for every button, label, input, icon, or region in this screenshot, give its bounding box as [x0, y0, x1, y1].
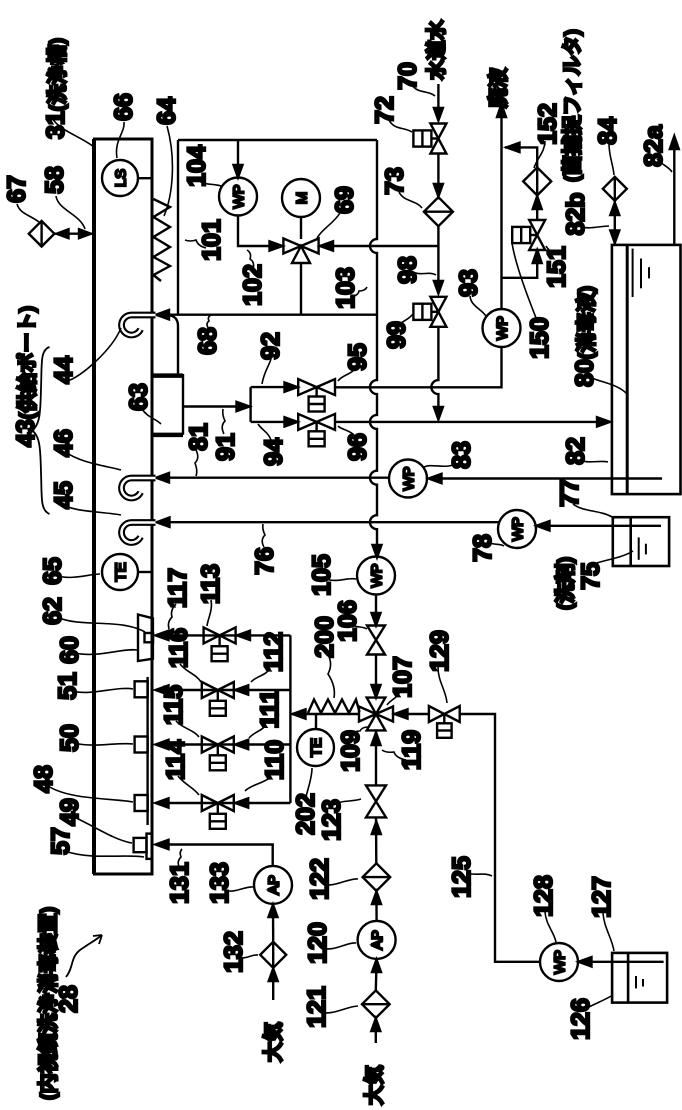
- level sensor LS 66: [102, 160, 138, 196]
- leader 120: [322, 943, 356, 949]
- svg-text:123: 123: [318, 799, 346, 841]
- circulation loop 68 left pipe 101: [177, 140, 179, 315]
- svg-text:115: 115: [160, 685, 188, 725]
- detergent suction pipe 77: [537, 525, 661, 527]
- svg-text:152: 152: [534, 103, 562, 145]
- wire to pump WP104: [237, 140, 239, 166]
- svg-text:LS: LS: [113, 169, 130, 187]
- motor valve 129: [429, 706, 460, 738]
- arrow into valve 107: [372, 685, 381, 698]
- leader 107: [387, 691, 400, 705]
- svg-text:109: 109: [337, 730, 365, 772]
- temperature sensor TE 65: [102, 554, 153, 590]
- svg-text:66: 66: [110, 93, 138, 121]
- return valve 96: [298, 414, 335, 446]
- check valve 67: [29, 221, 55, 247]
- leader 99: [399, 314, 413, 325]
- arrow into port 57: [156, 840, 169, 849]
- svg-text:WP: WP: [494, 316, 511, 340]
- arrow into tank 80: [597, 417, 610, 426]
- svg-text:132: 132: [220, 931, 248, 973]
- valve 106: [367, 626, 385, 655]
- vent pipe 82a: [673, 139, 675, 245]
- wire manifold to valve 95: [251, 386, 285, 388]
- valve 123: [366, 785, 386, 817]
- port 48: [135, 795, 148, 811]
- svg-text:69: 69: [331, 186, 359, 214]
- svg-text:103: 103: [332, 267, 360, 309]
- leader 114: [178, 776, 199, 795]
- pressure sensor AP 120: [358, 921, 396, 959]
- leader 92: [262, 359, 271, 384]
- svg-text:水道水: 水道水: [424, 19, 448, 80]
- svg-text:80(消毒液): 80(消毒液): [571, 286, 599, 387]
- svg-text:131: 131: [166, 862, 194, 904]
- arrow into WP128: [579, 957, 592, 966]
- leader 131: [178, 849, 182, 868]
- leader 132: [238, 955, 258, 958]
- svg-text:AP: AP: [266, 875, 283, 895]
- wire AP133 to filter 132: [272, 904, 275, 942]
- arrow into filter 152: [533, 196, 542, 209]
- svg-text:廃液: 廃液: [486, 67, 510, 108]
- svg-text:M: M: [294, 192, 311, 205]
- vent 82b double arrow: [610, 201, 619, 244]
- leader 103: [350, 287, 367, 297]
- motor M 69: [282, 179, 320, 217]
- air filter 132: [260, 942, 286, 968]
- arrow into WP83: [429, 474, 442, 483]
- heater 200 zigzag: [308, 700, 360, 714]
- wire valve 123 to check 122: [375, 817, 378, 863]
- svg-text:TE: TE: [113, 562, 130, 581]
- svg-text:73: 73: [381, 167, 409, 195]
- arrow into valve 112: [235, 685, 248, 694]
- arrow into valve 111: [235, 740, 248, 749]
- svg-text:125: 125: [448, 856, 476, 898]
- leader 82a: [657, 159, 672, 172]
- leader 44: [67, 328, 121, 381]
- leader 60: [75, 650, 137, 655]
- svg-text:46: 46: [50, 429, 78, 457]
- arrow into port 46: [156, 473, 169, 482]
- wire check 122 to AP120: [375, 891, 378, 921]
- leader 66: [116, 122, 124, 158]
- arrow into check 73: [434, 184, 443, 197]
- leader 83: [424, 463, 456, 467]
- svg-text:93: 93: [455, 269, 483, 297]
- check valve 122: [363, 863, 391, 891]
- wire WP104 out: [238, 216, 281, 247]
- svg-text:105: 105: [308, 554, 336, 596]
- wire valve 102 down: [300, 263, 302, 315]
- svg-text:45: 45: [50, 481, 78, 509]
- svg-text:(内視鏡洗浄消毒装置): (内視鏡洗浄消毒装置): [36, 907, 60, 1100]
- manifold strip: [146, 677, 148, 825]
- circulation loop 68 bottom pipe: [158, 314, 378, 316]
- heater pipe to manifold: [292, 713, 359, 715]
- arrow into valve 96: [285, 417, 298, 426]
- pipe 116: [157, 689, 290, 691]
- detergent tank 75: [613, 517, 669, 566]
- leader 96: [338, 426, 355, 436]
- pump WP 93: [483, 309, 521, 347]
- arrow into port 45: [157, 518, 170, 527]
- leader 80: [592, 378, 627, 394]
- arrow into valve 106: [372, 613, 381, 626]
- svg-text:96: 96: [344, 433, 372, 461]
- branch pipe 150: [502, 258, 537, 278]
- leader 106: [352, 625, 367, 629]
- tap water supply wire: [437, 84, 439, 110]
- svg-text:151: 151: [543, 246, 571, 288]
- arrow into line 96: [434, 407, 443, 420]
- leader 64: [164, 126, 172, 216]
- svg-text:(菌捕捉フィルタ): (菌捕捉フィルタ): [560, 29, 584, 182]
- leader 109: [352, 727, 368, 737]
- leader 112: [251, 668, 270, 682]
- leader 127: [603, 913, 614, 951]
- leader 31: [52, 118, 94, 147]
- air inlet wire 2: [272, 968, 274, 1000]
- wire valve 151 to filter 152: [536, 196, 538, 220]
- motor valve 99: [413, 297, 446, 327]
- svg-text:122: 122: [306, 858, 334, 900]
- leader 68: [207, 315, 211, 329]
- arrow into valve 113: [237, 631, 250, 640]
- air wire valve107 down: [375, 730, 377, 785]
- svg-text:64: 64: [153, 97, 181, 125]
- svg-text:121: 121: [303, 986, 331, 1028]
- svg-text:63: 63: [125, 383, 153, 411]
- leader 65: [58, 574, 100, 577]
- leader 125: [467, 873, 492, 876]
- leader 95: [338, 369, 355, 381]
- leader 129: [438, 667, 447, 703]
- svg-text:94: 94: [260, 438, 288, 466]
- wire M to valve: [300, 217, 302, 239]
- leader 70: [412, 85, 435, 96]
- leader 119: [382, 750, 406, 760]
- arrow into WP104: [234, 165, 243, 178]
- main riser pipe with hops: [370, 140, 377, 549]
- leader 57: [65, 851, 144, 857]
- motor valve 72: [413, 124, 446, 154]
- leader 151: [546, 246, 553, 255]
- arrow into WP105: [373, 545, 382, 558]
- svg-text:117: 117: [164, 568, 192, 608]
- svg-text:68: 68: [194, 327, 222, 355]
- leader 117: [168, 604, 176, 629]
- leader 133: [224, 887, 253, 891]
- leader 98: [413, 272, 436, 275]
- arrow into valve 151: [533, 250, 542, 263]
- svg-text:大気: 大気: [362, 1065, 386, 1105]
- svg-text:84: 84: [594, 117, 622, 145]
- alcohol suction pipe: [579, 961, 664, 963]
- svg-text:78: 78: [469, 534, 497, 562]
- leader 46: [66, 452, 121, 470]
- brace 43: [32, 347, 50, 514]
- leader 81: [195, 450, 198, 476]
- leader 84: [609, 144, 614, 175]
- leader 126: [585, 995, 613, 1009]
- svg-text:57: 57: [47, 827, 75, 855]
- pump WP 78: [498, 510, 536, 548]
- svg-text:AP: AP: [369, 930, 386, 950]
- check valve 121: [362, 990, 390, 1018]
- wire valve 107 to valve 129: [393, 713, 429, 715]
- nozzle port 46 hook: [122, 478, 156, 498]
- air pipe 131: [157, 845, 273, 867]
- svg-text:116: 116: [165, 628, 193, 668]
- leader 48: [48, 786, 133, 802]
- arrow into valve 72: [434, 108, 443, 121]
- arrow into valve 110: [235, 798, 248, 807]
- nozzle port 44 hook: [122, 315, 156, 335]
- leader 82b: [580, 226, 609, 228]
- leader 93: [470, 296, 486, 316]
- svg-text:91: 91: [212, 433, 240, 461]
- wire LS to tank wall: [138, 177, 153, 179]
- svg-text:104: 104: [183, 145, 211, 187]
- svg-text:WP: WP: [401, 466, 418, 490]
- leader 50: [74, 743, 133, 745]
- svg-text:82a: 82a: [640, 124, 668, 167]
- arrow into WP78: [537, 521, 550, 530]
- svg-text:128: 128: [530, 875, 558, 917]
- svg-text:110: 110: [261, 740, 289, 780]
- leader 113: [207, 600, 211, 626]
- svg-text:127: 127: [588, 876, 616, 918]
- bacteria filter 152: [523, 167, 551, 195]
- arrow into valve 102 left: [270, 241, 283, 250]
- svg-text:60: 60: [56, 636, 84, 664]
- motor valve 110: [202, 795, 234, 829]
- arrow into manifold: [293, 709, 306, 718]
- detergent pipe 76 to port 45: [158, 521, 500, 523]
- svg-text:112: 112: [260, 632, 288, 672]
- leader 73: [399, 192, 422, 208]
- port 57 flange: [134, 834, 152, 859]
- wire AP120 to check 121: [375, 959, 378, 991]
- leader 152: [534, 141, 545, 168]
- wire valve 72 to check 73: [437, 154, 439, 187]
- check valve 73: [424, 197, 453, 226]
- svg-text:133: 133: [206, 862, 234, 904]
- svg-text:111: 111: [256, 689, 284, 728]
- arrow into AP133 bottom: [269, 905, 278, 918]
- pressure sensor AP 133: [254, 866, 292, 904]
- leader 122: [323, 879, 358, 885]
- wire filter 152 to waste: [505, 147, 537, 167]
- arrow into AP120 bottom: [372, 960, 381, 973]
- svg-text:92: 92: [257, 332, 285, 360]
- svg-text:76: 76: [251, 547, 279, 575]
- arrow into valve 107 bottom: [372, 733, 381, 746]
- svg-text:50: 50: [56, 724, 84, 752]
- leader 51: [72, 688, 133, 692]
- leader 202: [306, 768, 312, 797]
- svg-text:150: 150: [526, 317, 554, 359]
- pipe 115: [157, 743, 290, 745]
- air filter 84: [603, 177, 627, 201]
- svg-text:200: 200: [311, 616, 339, 658]
- leader 58: [56, 196, 85, 229]
- svg-text:58: 58: [41, 166, 69, 194]
- svg-text:77: 77: [556, 479, 584, 507]
- leader 116: [180, 664, 201, 682]
- leader 128: [545, 912, 556, 942]
- arrow into manifold: [237, 402, 250, 411]
- wire WP105 down: [375, 595, 377, 615]
- svg-text:49: 49: [56, 798, 84, 826]
- arrow waste out: [497, 104, 506, 117]
- motor valve 112: [202, 682, 234, 716]
- arrow into valve 99: [434, 281, 443, 294]
- leader 150: [512, 243, 538, 323]
- svg-text:WP: WP: [510, 517, 527, 541]
- leader 45: [66, 506, 121, 515]
- leader 123: [334, 799, 361, 805]
- wire valve 106 down: [375, 655, 377, 687]
- svg-text:WP: WP: [231, 184, 248, 208]
- svg-text:72: 72: [371, 96, 399, 124]
- cleaning tank 31: [94, 139, 152, 874]
- pump WP 105: [357, 557, 395, 595]
- arrow into waste pipe: [507, 143, 520, 152]
- leader 49: [74, 817, 132, 843]
- svg-text:119: 119: [398, 730, 426, 770]
- wire WP93 suction: [335, 347, 502, 387]
- svg-text:98: 98: [394, 256, 422, 284]
- arrow into check 121 bottom: [371, 1019, 380, 1032]
- manifold pipe: [289, 635, 291, 803]
- pipe 103: [319, 245, 439, 247]
- wire check 73 down to junction: [437, 226, 439, 282]
- leader 115: [176, 721, 199, 737]
- leader 121: [320, 1006, 358, 1013]
- motor valve 113: [204, 627, 236, 661]
- svg-text:114: 114: [162, 740, 190, 780]
- svg-text:82b: 82b: [562, 192, 590, 235]
- leader 63: [142, 409, 161, 424]
- leader 102: [247, 250, 254, 271]
- arrow into port 51: [156, 685, 169, 694]
- arrow into port 50: [156, 740, 169, 749]
- port 51: [135, 681, 148, 697]
- svg-text:44: 44: [50, 356, 78, 384]
- motor valve 151: [512, 220, 545, 250]
- svg-text:大気: 大気: [261, 1022, 285, 1062]
- svg-text:95: 95: [344, 343, 372, 371]
- svg-text:70: 70: [394, 62, 422, 90]
- temperature sensor TE 202: [297, 714, 334, 766]
- svg-text:107: 107: [389, 656, 417, 698]
- leader 200: [326, 652, 334, 698]
- svg-text:129: 129: [426, 630, 454, 672]
- arrow into check 122 bottom: [372, 892, 381, 905]
- leader 110: [245, 776, 271, 791]
- leader 78: [487, 541, 504, 546]
- arrow into port 62: [156, 631, 169, 640]
- svg-text:75: 75: [577, 562, 605, 590]
- arrow into valve 107 right: [395, 709, 408, 718]
- supply port block 63: [153, 316, 183, 435]
- svg-text:62: 62: [39, 597, 67, 625]
- svg-text:(洗剤): (洗剤): [553, 557, 577, 610]
- leader 75: [594, 551, 633, 564]
- return pipe to tank 80: [335, 421, 609, 423]
- disinfectant tank 80: [612, 245, 681, 494]
- wire valve 99 down with hop: [431, 327, 438, 409]
- pump WP 104: [219, 178, 257, 216]
- pump WP 128: [540, 943, 578, 981]
- leader 69: [317, 213, 340, 238]
- svg-text:51: 51: [54, 672, 82, 700]
- arrow into filter 132 bottom: [269, 969, 278, 982]
- svg-text:WP: WP: [552, 950, 569, 974]
- svg-text:126: 126: [567, 998, 595, 1040]
- svg-text:120: 120: [304, 922, 332, 964]
- arrow into valve 95: [285, 382, 298, 391]
- arrow into port 44: [156, 310, 169, 319]
- svg-text:65: 65: [39, 557, 67, 585]
- port 62 funnel: [138, 615, 153, 662]
- supply pipe 81 to port 46: [158, 477, 390, 479]
- leader 62: [57, 617, 145, 632]
- motor valve 111: [202, 737, 234, 771]
- manifold 92 left pipe: [249, 387, 251, 422]
- air inlet wire: [375, 1018, 377, 1043]
- wire 58 double arrow: [54, 229, 92, 238]
- arrow into valve 123 bottom: [372, 822, 381, 835]
- arrow into valve 102 right: [320, 241, 333, 250]
- leader 67: [17, 204, 39, 222]
- leader 76: [262, 524, 265, 547]
- arrow 82a out: [670, 136, 679, 149]
- pipe 117: [157, 634, 290, 636]
- svg-text:101: 101: [198, 219, 226, 261]
- pipe 114: [157, 802, 290, 804]
- leader 91: [222, 409, 225, 434]
- svg-text:99: 99: [383, 321, 411, 349]
- waste pipe: [500, 107, 502, 310]
- nozzle port 45 hook: [122, 523, 156, 543]
- alcohol tank 126: [612, 953, 667, 1003]
- arrow into port 48: [156, 798, 169, 807]
- svg-text:TE: TE: [308, 738, 325, 757]
- leader 101: [185, 240, 206, 248]
- leader 94: [258, 424, 271, 440]
- svg-text:67: 67: [3, 175, 31, 203]
- leader 82: [580, 460, 608, 462]
- pump WP 83: [389, 460, 427, 498]
- four-way valve 107: [359, 698, 393, 731]
- arrow 28 squiggle: [66, 935, 102, 977]
- wire manifold to valve 96: [251, 421, 285, 423]
- port 50: [135, 737, 148, 753]
- alcohol pipe 125: [460, 714, 540, 962]
- svg-text:202: 202: [292, 793, 320, 835]
- svg-text:113: 113: [197, 564, 225, 604]
- leader 72: [389, 120, 412, 132]
- leader 105: [326, 579, 356, 581]
- svg-text:WP: WP: [369, 563, 386, 587]
- heater 64 zigzag: [153, 199, 170, 281]
- supply pipe 91: [183, 405, 248, 407]
- leader 111: [249, 725, 266, 738]
